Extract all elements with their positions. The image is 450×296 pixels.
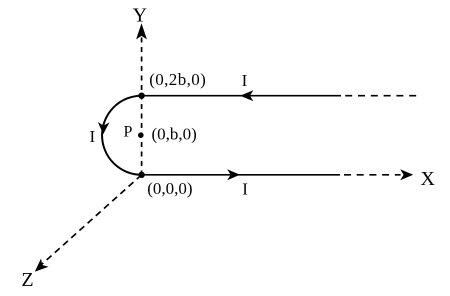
svg-text:Z: Z [21, 269, 33, 291]
svg-text:X: X [421, 168, 436, 190]
Z axis dashed line [41, 175, 142, 265]
node (0,2b,0) dot [138, 93, 144, 99]
Y axis dashed line [141, 38, 143, 175]
svg-text:(0,2b,0): (0,2b,0) [149, 70, 206, 89]
semicircular wire arc [102, 96, 142, 175]
top wire dashed segment [345, 95, 416, 97]
Y axis arrowhead [136, 23, 147, 39]
X axis solid segment (bottom wire) [142, 174, 340, 176]
origin dot [138, 172, 144, 178]
svg-text:(0,b,0): (0,b,0) [152, 124, 197, 143]
svg-text:P: P [124, 124, 133, 141]
svg-text:Y: Y [133, 4, 147, 26]
Z axis arrowhead [31, 258, 49, 275]
svg-text:I: I [89, 127, 95, 146]
svg-text:I: I [242, 71, 248, 90]
current arrow on top wire [240, 90, 253, 101]
svg-text:(0,0,0): (0,0,0) [147, 179, 192, 198]
top wire solid segment [142, 95, 341, 97]
current arrow on bottom wire [227, 169, 240, 180]
current arrowhead on arc [97, 122, 109, 134]
X axis dashed segment [344, 174, 401, 176]
svg-text:I: I [242, 180, 248, 199]
point P dot [138, 132, 144, 138]
X axis arrowhead [400, 169, 413, 180]
